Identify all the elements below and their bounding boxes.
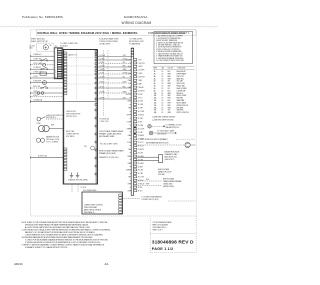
svg-text:18: 18 [162,102,164,104]
svg-text:18: 18 [162,78,164,80]
stamp box top rule [150,233,196,235]
svg-text:ORN: ORN [168,107,171,109]
main harness connector strip P7 [130,48,132,196]
svg-text:WHT VOLT: WHT VOLT [177,76,185,78]
svg-text:COLOR: COLOR [168,67,174,69]
svg-text:23 BLU: 23 BLU [100,81,105,83]
svg-text:GRN PNK: GRN PNK [177,110,184,112]
svg-text:5. DOOR SWITCHES SHOWN WITH: 5. DOOR SWITCHES SHOWN WITH [156,47,181,49]
svg-text:PNK BRN: PNK BRN [177,107,184,109]
clock motor M1 [37,43,55,51]
bottom right divider [149,218,151,253]
svg-text:6 SWITCH: 6 SWITCH [138,77,145,79]
svg-text:A06/10: A06/10 [14,262,23,266]
svg-text:9 ORN MTR: 9 ORN MTR [33,81,42,83]
svg-text:CONV: CONV [36,123,40,125]
svg-text:21 DOOR: 21 DOOR [138,128,146,130]
svg-text:YEL: YEL [168,81,171,83]
svg-text:3 ORN: 3 ORN [138,66,143,68]
svg-text:SHEET 1 OF 2: SHEET 1 OF 2 [153,230,163,232]
svg-text:(SEE NOTE 7): (SEE NOTE 7) [165,159,175,161]
svg-text:GRY: GRY [168,86,171,88]
svg-text:GRN: GRN [168,93,171,95]
svg-text:ORN DOOR: ORN DOOR [177,83,186,85]
svg-text:10 YEL: 10 YEL [33,76,38,78]
svg-text:10: 10 [55,70,57,72]
svg-text:WIRING DIAGRAM: WIRING DIAGRAM [122,21,152,25]
svg-text:25 VOLT: 25 VOLT [138,142,144,144]
hv transformer wire 2 [135,185,162,187]
svg-text:26 PNK: 26 PNK [100,97,105,99]
wire 25 TAN [97,92,131,94]
svg-text:22 GRY: 22 GRY [100,76,105,78]
svg-text:WHT: WHT [146,184,149,186]
svg-text:SWITCH SWITCH: SWITCH SWITCH [177,112,189,114]
svg-text:GRY BROIL: GRY BROIL [66,136,75,138]
svg-text:CONV: CONV [126,121,130,123]
svg-text:YEL: YEL [128,177,131,179]
hv transformer wire 1 [135,180,162,182]
svg-text:18: 18 [162,112,164,114]
svg-text:(UPPER) N.O.: (UPPER) N.O. [46,117,57,119]
svg-text:38 YEL: 38 YEL [138,187,143,189]
svg-text:8 BLU SW: 8 BLU SW [33,86,41,88]
vertical harness dashed line A [103,51,105,117]
svg-text:CONTROL PWB (UPPER): CONTROL PWB (UPPER) [99,41,118,43]
svg-text:DOOR CLOSED (N.C. POSITION): DOOR CLOSED (N.C. POSITION) [156,49,180,51]
wire 19 WHT [97,66,131,68]
wire L1 feed [31,101,97,103]
svg-text:SHELF SUPPORT (R): SHELF SUPPORT (R) [31,41,48,43]
svg-text:(M1): (M1) [29,48,33,50]
svg-text:30: 30 [50,45,52,47]
svg-text:RED: RED [123,62,126,64]
svg-text:RED: RED [128,101,131,103]
svg-text:120V 25W (2): 120V 25W (2) [157,133,167,135]
wire 21 YEL [97,73,131,75]
wire/component row y=82.6 [31,82,64,84]
wire/component row y=60.4 [31,59,55,61]
lower board wire right [123,198,141,200]
svg-text:10. USE COPPER CONDUCTORS ONLY: 10. USE COPPER CONDUCTORS ONLY [156,60,184,62]
legend thermostat symbol row [148,125,152,129]
svg-text:-44-: -44- [104,262,109,266]
wire 18 BLK [97,63,131,65]
svg-text:YEL: YEL [128,108,131,110]
svg-text:BLK: BLK [168,100,171,102]
svg-text:18: 18 [162,95,164,97]
control board right edge emphasis [95,50,97,185]
svg-text:P5 GRN: P5 GRN [81,187,86,189]
svg-text:GRN: GRN [168,112,171,114]
control board left edge pin cells [64,52,67,95]
svg-text:WHT: WHT [168,102,171,104]
svg-text:19 YEL: 19 YEL [138,121,143,123]
svg-text:18: 18 [162,107,164,109]
wire 24 VIO [97,87,131,89]
svg-text:CONNECTOR P71 (BLK): CONNECTOR P71 (BLK) [142,199,159,201]
svg-text:2 SWITCH: 2 SWITCH [138,63,145,65]
svg-text:CIRCUIT (N.C.): CIRCUIT (N.C.) [66,116,78,118]
junction dot 1 [134,127,136,129]
svg-text:BRN BLU: BRN BLU [177,93,184,95]
svg-text:18: 18 [162,73,164,75]
svg-text:BLU: BLU [168,90,171,92]
svg-text:33 LINE: 33 LINE [138,170,143,172]
svg-text:BLK: BLK [146,179,149,181]
svg-text:PNK: PNK [128,80,131,82]
svg-text:18: 18 [162,110,164,112]
strip P7 top header cells [131,49,134,57]
diagram outer border [31,30,197,216]
svg-text:11 PNK: 11 PNK [138,94,143,96]
svg-text:39 VIO: 39 VIO [138,190,144,192]
svg-text:18: 18 [162,83,164,85]
svg-text:16 ORN: 16 ORN [100,55,105,57]
control board interior wires [67,51,95,101]
svg-text:VOLT: VOLT [127,142,131,144]
svg-text:27 BROIL: 27 BROIL [138,149,145,151]
svg-text:WHT: WHT [168,73,171,75]
svg-text:2 WHT 120V: 2 WHT 120V [100,121,110,123]
svg-text:NOTES: UNLESS OTHERWISE SPECIF: NOTES: UNLESS OTHERWISE SPECIFIED [155,33,186,35]
wire 23 BLU [97,82,131,84]
svg-text:P4 3 BLK (N): P4 3 BLK (N) [100,119,110,121]
svg-text:LINE: LINE [127,190,130,192]
svg-text:21 YEL: 21 YEL [100,72,105,74]
svg-text:HIGH LOWER: HIGH LOWER [177,95,188,97]
svg-text:10 MICRO: 10 MICRO [138,90,146,92]
microwave fan wire [135,144,185,146]
svg-text:PNK: PNK [168,98,171,100]
wire table header rule [153,68,195,70]
svg-text:P30: P30 [84,146,87,148]
svg-text:DOUBLE WALL OVEN / WIRING DI: DOUBLE WALL OVEN / WIRING DIAGRAM 240V 6… [38,32,138,35]
svg-text:NEUT: NEUT [127,115,131,117]
svg-text:BRN: BRN [123,65,126,67]
svg-text:20 BRN: 20 BRN [100,69,105,71]
svg-text:14 GRY SW: 14 GRY SW [33,58,42,60]
fan motor symbol [185,142,190,147]
svg-text:TO OVEN LIGHTS: TO OVEN LIGHTS [129,39,142,41]
svg-text:18: 18 [162,81,164,83]
svg-text:4 LOWER: 4 LOWER [138,70,146,72]
svg-text:BRN: BRN [128,156,131,158]
svg-text:18: 18 [162,98,164,100]
stamp box bottom rule [150,252,196,254]
title bar [36,30,196,36]
svg-text:ORN: ORN [168,78,171,80]
ground lugs inside control board [71,173,73,176]
svg-text:17 RED: 17 RED [100,58,106,60]
strip P7 pin cells [134,59,137,192]
svg-text:11: 11 [55,72,57,74]
svg-text:13 LINE: 13 LINE [138,101,143,103]
svg-text:2. DISCONNECT POWER BEFORE: 2. DISCONNECT POWER BEFORE [156,38,180,40]
svg-text:17 BROIL: 17 BROIL [138,115,145,117]
svg-text:14 GRN: 14 GRN [138,104,143,106]
svg-text:NEUT PNK: NEUT PNK [66,131,75,133]
perforation line [0,26,220,27]
svg-text:18: 18 [162,100,164,102]
strip P7 left ticks [130,60,132,191]
control board lower-left pin cells [64,148,67,170]
wire/component row y=93.0 [31,92,64,94]
svg-text:LOWER OVEN CONTROL: LOWER OVEN CONTROL [84,204,103,206]
svg-text:ORN: ORN [123,55,126,57]
svg-text:YEL: YEL [123,76,126,78]
svg-text:32 BRN: 32 BRN [138,166,143,168]
svg-text:5 ORN: 5 ORN [138,73,143,75]
svg-text:E30MO65GSSA: E30MO65GSSA [124,15,148,19]
svg-text:OVEN DOOR: OVEN DOOR [66,111,77,113]
svg-text:LOWER ORN YEL: LOWER ORN YEL [66,134,79,136]
svg-text:SCHEMATIC SUBJECT TO CHANGE WI: SCHEMATIC SUBJECT TO CHANGE WITHOUT NOTI… [25,246,68,249]
wire table top rule [153,65,195,67]
svg-text:UPPER SWITCH: UPPER SWITCH [177,105,189,107]
damper motor M3 [36,138,40,142]
svg-text:Publication No. 5995614856: Publication No. 5995614856 [22,15,63,19]
wire 16 ORN [97,56,131,58]
svg-text:YEL: YEL [168,110,171,112]
control board right edge pin ticks [95,51,97,175]
wire 17 RED [97,59,131,61]
legend lamp symbol row [149,131,153,135]
svg-text:P70 LOWER OVEN: P70 LOWER OVEN [83,190,96,192]
svg-text:CONV: CONV [126,73,130,75]
svg-text:16 OVEN: 16 OVEN [138,111,144,113]
interior relay K1 [91,146,95,150]
svg-text:18 GRY: 18 GRY [138,118,143,120]
oven control board U1 outline [63,50,97,185]
wire/component row y=88.0 [31,87,64,89]
lower board right edge cells [119,194,122,213]
magnetron wires [135,156,159,158]
svg-text:ORN: ORN [123,97,126,99]
svg-text:(UPPER OVEN): (UPPER OVEN) [163,186,174,188]
svg-text:CLOCK: CLOCK [29,45,35,47]
svg-text:OVEN DOOR SWITCH: OVEN DOOR SWITCH [46,115,63,117]
svg-text:BLU: BLU [128,66,131,68]
svg-text:12 VIO: 12 VIO [138,97,144,99]
wire 26 PNK [97,98,131,100]
svg-text:18: 18 [162,90,164,92]
notes box [154,32,193,64]
svg-text:15 GRY: 15 GRY [138,108,143,110]
convection fan motor M2 [38,125,44,131]
svg-text:SWITCH MONITOR: SWITCH MONITOR [66,114,81,116]
svg-text:P6 1 BLK 2 WHT 3 GRN: P6 1 BLK 2 WHT 3 GRN [100,144,118,146]
wire/component row y=78.0 [31,77,64,79]
svg-text:PAGE 1 1/2: PAGE 1 1/2 [152,247,173,251]
wire/component row y=96.8 [31,96,64,98]
svg-text:ORN: ORN [127,184,130,186]
svg-text:BRN: BRN [123,86,126,88]
svg-text:YEL: YEL [128,149,131,151]
wire/component row y=64.8 [31,64,55,66]
svg-text:BRN: BRN [168,83,171,85]
wire 22 GRY [97,77,131,79]
svg-text:18: 18 [162,76,164,78]
lower oven control board outline [82,192,123,214]
svg-text:19 WHT: 19 WHT [100,65,106,67]
svg-text:18: 18 [162,105,164,107]
svg-text:28 LINE: 28 LINE [138,152,143,154]
svg-text:18: 18 [162,88,164,90]
svg-text:12: 12 [55,75,57,77]
svg-text:6 WHT: 6 WHT [33,95,38,97]
wire to lower left [31,157,64,159]
door switch S3 [37,117,41,121]
svg-text:20 ORN: 20 ORN [138,125,143,127]
svg-text:18: 18 [162,86,164,88]
magnetron connector [159,155,163,163]
svg-text:TO P7 - 3 (WHT): TO P7 - 3 (WHT) [46,141,58,143]
junction dot 2 [134,133,136,135]
svg-text:THIS SHEET REV D: THIS SHEET REV D [153,227,168,229]
vertical harness dashed line B [107,51,109,100]
board-to-board links [71,184,73,192]
svg-text:FUNCTION: FUNCTION [178,67,186,69]
svg-text:318046898 REV D: 318046898 REV D [152,240,194,246]
wire/component row y=56.2 [31,55,55,57]
wire 20 BRN [97,70,131,72]
svg-text:18: 18 [162,71,164,73]
svg-text:35 CONV: 35 CONV [138,177,144,179]
svg-text:18: 18 [162,93,164,95]
wire/component row y=69.2 [31,68,55,70]
wire/component row y=73.6 [31,73,55,75]
svg-text:BLK: BLK [168,71,171,73]
svg-text:15 BRN N.O.: 15 BRN N.O. [33,54,42,56]
svg-text:26 VOLT: 26 VOLT [138,146,144,148]
svg-text:120V 60Hz (CCW): 120V 60Hz (CCW) [46,139,60,141]
